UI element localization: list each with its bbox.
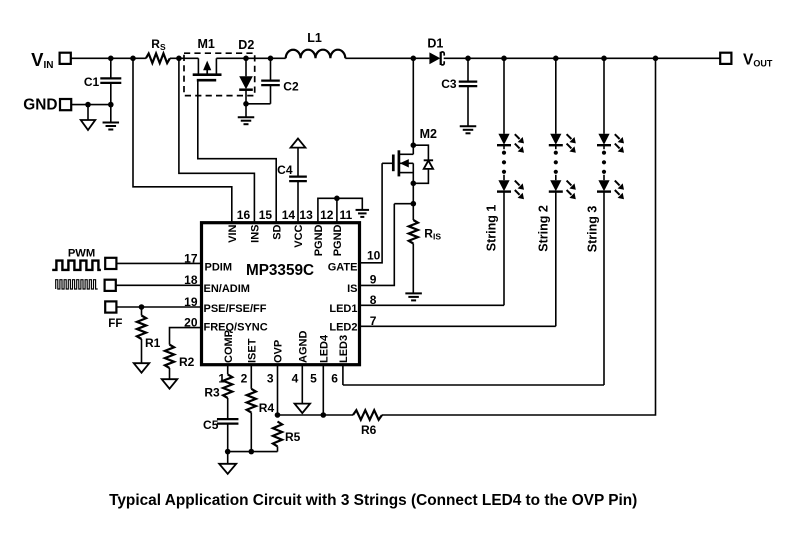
svg-text:9: 9 bbox=[370, 273, 377, 287]
svg-text:5: 5 bbox=[310, 371, 317, 385]
svg-text:D2: D2 bbox=[238, 38, 254, 52]
svg-text:String 2: String 2 bbox=[536, 205, 550, 252]
svg-text:GND: GND bbox=[23, 97, 57, 114]
svg-text:AGND: AGND bbox=[298, 331, 310, 363]
svg-text:PDIM: PDIM bbox=[205, 261, 233, 273]
svg-text:11: 11 bbox=[340, 208, 353, 222]
svg-text:L1: L1 bbox=[307, 31, 322, 45]
svg-text:8: 8 bbox=[370, 293, 377, 307]
svg-text:SD: SD bbox=[271, 224, 283, 239]
svg-text:10: 10 bbox=[367, 248, 381, 262]
svg-text:4: 4 bbox=[292, 371, 299, 385]
svg-text:ISET: ISET bbox=[247, 338, 259, 363]
svg-text:3: 3 bbox=[267, 371, 274, 385]
svg-text:FREQ/SYNC: FREQ/SYNC bbox=[204, 322, 268, 334]
svg-text:FF: FF bbox=[108, 318, 122, 330]
svg-text:MP3359C: MP3359C bbox=[246, 262, 314, 279]
svg-text:OVP: OVP bbox=[273, 340, 285, 363]
svg-text:LED2: LED2 bbox=[329, 322, 357, 334]
svg-text:17: 17 bbox=[184, 252, 198, 266]
svg-text:GATE: GATE bbox=[328, 261, 358, 273]
svg-text:7: 7 bbox=[370, 314, 377, 328]
svg-text:M2: M2 bbox=[420, 127, 437, 141]
svg-text:14: 14 bbox=[282, 208, 296, 222]
svg-text:12: 12 bbox=[320, 208, 334, 222]
svg-text:C5: C5 bbox=[203, 418, 219, 432]
svg-text:PGND: PGND bbox=[313, 224, 325, 256]
svg-text:C4: C4 bbox=[277, 163, 293, 177]
svg-text:Typical Application Circuit wi: Typical Application Circuit with 3 Strin… bbox=[109, 492, 637, 509]
svg-text:R2: R2 bbox=[179, 355, 195, 369]
svg-text:PGND: PGND bbox=[332, 224, 344, 256]
svg-text:18: 18 bbox=[184, 273, 198, 287]
svg-text:13: 13 bbox=[299, 208, 313, 222]
svg-text:R6: R6 bbox=[361, 423, 377, 437]
svg-text:String 3: String 3 bbox=[586, 206, 600, 253]
svg-text:D1: D1 bbox=[427, 36, 443, 50]
svg-text:16: 16 bbox=[237, 208, 251, 222]
svg-text:19: 19 bbox=[184, 295, 198, 309]
svg-text:IS: IS bbox=[347, 283, 357, 295]
svg-text:C1: C1 bbox=[84, 75, 100, 89]
svg-text:VCC: VCC bbox=[293, 224, 305, 247]
svg-text:LED3: LED3 bbox=[338, 335, 350, 363]
svg-text:20: 20 bbox=[184, 316, 198, 330]
svg-text:R5: R5 bbox=[285, 430, 301, 444]
svg-text:INS: INS bbox=[250, 225, 262, 243]
svg-text:2: 2 bbox=[241, 371, 248, 385]
svg-text:PSE/FSE/FF: PSE/FSE/FF bbox=[204, 303, 267, 315]
svg-text:6: 6 bbox=[331, 371, 338, 385]
svg-text:COMP: COMP bbox=[223, 330, 235, 363]
svg-text:R3: R3 bbox=[204, 385, 220, 399]
svg-text:C2: C2 bbox=[283, 80, 299, 94]
svg-text:C3: C3 bbox=[441, 77, 457, 91]
svg-text:1: 1 bbox=[218, 371, 225, 385]
svg-text:VIN: VIN bbox=[227, 224, 239, 242]
svg-text:String 1: String 1 bbox=[485, 205, 499, 252]
svg-text:EN/ADIM: EN/ADIM bbox=[204, 283, 250, 295]
svg-text:LED1: LED1 bbox=[329, 303, 357, 315]
svg-text:PWM: PWM bbox=[68, 247, 95, 259]
svg-text:LED4: LED4 bbox=[319, 334, 331, 363]
svg-text:R4: R4 bbox=[259, 401, 275, 415]
svg-text:R1: R1 bbox=[145, 336, 161, 350]
svg-text:15: 15 bbox=[259, 208, 273, 222]
svg-text:M1: M1 bbox=[198, 37, 215, 51]
